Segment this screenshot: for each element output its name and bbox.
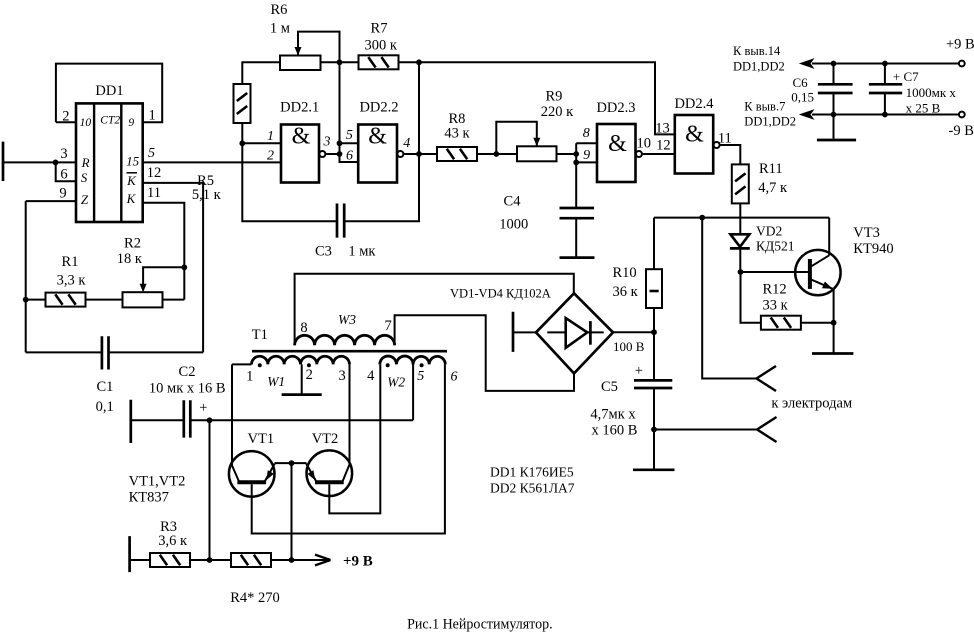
svg-text:DD2.2: DD2.2: [359, 100, 398, 116]
svg-text:4: 4: [403, 136, 410, 151]
svg-text:1: 1: [148, 108, 155, 124]
svg-text:K: K: [126, 173, 137, 188]
svg-text:11: 11: [147, 185, 161, 201]
svg-text:VT2: VT2: [312, 431, 339, 447]
svg-text:+9 В: +9 В: [946, 37, 974, 53]
svg-text:+ C7: + C7: [893, 69, 919, 84]
svg-text:C6: C6: [793, 75, 809, 90]
svg-text:VT1: VT1: [248, 431, 275, 447]
svg-text:DD1: DD1: [95, 83, 123, 99]
svg-text:C2: C2: [179, 364, 196, 380]
svg-text:R: R: [81, 155, 90, 170]
svg-text:9: 9: [59, 186, 66, 202]
svg-text:S: S: [81, 170, 88, 185]
svg-text:&: &: [368, 124, 387, 150]
svg-text:&: &: [685, 122, 704, 148]
svg-text:DD1,DD2: DD1,DD2: [744, 114, 796, 128]
svg-text:W2: W2: [387, 375, 405, 390]
svg-text:Z: Z: [81, 192, 89, 207]
svg-text:DD1,DD2: DD1,DD2: [733, 59, 785, 73]
svg-text:C1: C1: [96, 379, 113, 395]
svg-text:DD2.4: DD2.4: [674, 96, 714, 112]
svg-text:8: 8: [583, 126, 590, 141]
svg-text:х 25 В: х 25 В: [906, 100, 941, 115]
svg-text:K: K: [126, 191, 137, 206]
svg-text:33 к: 33 к: [763, 298, 789, 314]
svg-text:100 В: 100 В: [613, 339, 645, 354]
svg-text:18 к: 18 к: [117, 251, 143, 267]
svg-text:300 к: 300 к: [364, 38, 397, 54]
svg-text:0,15: 0,15: [791, 90, 814, 105]
svg-text:4,7мк х: 4,7мк х: [590, 407, 636, 423]
svg-text:3: 3: [323, 134, 331, 149]
svg-text:43 к: 43 к: [444, 126, 470, 142]
svg-text:5: 5: [346, 128, 353, 143]
svg-text:+: +: [635, 363, 643, 379]
svg-text:КД521: КД521: [756, 239, 794, 254]
svg-text:VT1,VT2: VT1,VT2: [129, 474, 186, 490]
svg-text:5: 5: [417, 369, 424, 384]
svg-text:DD2.1: DD2.1: [280, 100, 319, 116]
svg-text:10: 10: [80, 117, 92, 129]
svg-text:2: 2: [267, 149, 274, 164]
svg-text:R4* 270: R4* 270: [230, 590, 280, 606]
svg-text:R10: R10: [613, 265, 637, 281]
svg-text:W1: W1: [267, 374, 285, 389]
svg-text:6: 6: [60, 167, 67, 183]
svg-text:х 160 В: х 160 В: [592, 422, 638, 438]
svg-text:W3: W3: [338, 312, 356, 327]
svg-text:R6: R6: [270, 2, 287, 18]
svg-text:Т1: Т1: [252, 327, 268, 343]
svg-text:К выв.7: К выв.7: [744, 100, 785, 114]
svg-text:12: 12: [656, 137, 671, 153]
svg-text:6: 6: [451, 370, 458, 385]
svg-text:5,1 к: 5,1 к: [192, 187, 222, 203]
svg-text:DD1 К176ИЕ5: DD1 К176ИЕ5: [490, 465, 574, 480]
svg-text:1 мк: 1 мк: [348, 244, 376, 260]
svg-text:10: 10: [637, 136, 652, 152]
svg-text:3: 3: [338, 368, 345, 384]
svg-text:3,6 к: 3,6 к: [158, 533, 188, 549]
svg-text:Рис.1 Нейростимулятор.: Рис.1 Нейростимулятор.: [407, 616, 552, 632]
svg-text:3,3 к: 3,3 к: [57, 273, 87, 289]
svg-text:DD2.3: DD2.3: [596, 100, 635, 116]
svg-text:+: +: [199, 400, 207, 416]
svg-text:к электродам: к электродам: [771, 395, 852, 411]
svg-text:-9 В: -9 В: [949, 123, 974, 139]
svg-text:8: 8: [300, 320, 307, 336]
svg-text:5: 5: [148, 146, 155, 161]
svg-text:2: 2: [306, 367, 313, 383]
svg-text:1 м: 1 м: [270, 21, 290, 37]
svg-text:C5: C5: [601, 379, 618, 395]
svg-text:КТ837: КТ837: [129, 490, 169, 506]
svg-text:11: 11: [718, 131, 732, 147]
svg-text:R2: R2: [124, 236, 141, 252]
svg-text:12: 12: [147, 165, 162, 181]
svg-text:13: 13: [655, 121, 670, 137]
svg-text:К выв.14: К выв.14: [733, 44, 781, 58]
svg-text:15: 15: [126, 153, 140, 168]
svg-text:36 к: 36 к: [613, 284, 639, 300]
svg-text:1000: 1000: [499, 217, 528, 233]
svg-text:220 к: 220 к: [541, 104, 574, 120]
svg-text:R1: R1: [62, 254, 79, 270]
svg-text:C4: C4: [504, 194, 522, 210]
svg-text:КТ940: КТ940: [853, 241, 893, 257]
svg-text:3: 3: [60, 146, 67, 162]
svg-text:10 мк х 16 В: 10 мк х 16 В: [149, 381, 226, 397]
svg-text:R11: R11: [759, 161, 783, 177]
svg-text:DD2 К561ЛА7: DD2 К561ЛА7: [490, 481, 575, 496]
svg-text:9: 9: [583, 148, 590, 163]
svg-text:&: &: [292, 124, 311, 150]
svg-text:&: &: [608, 131, 627, 157]
svg-text:R7: R7: [371, 20, 388, 36]
svg-text:+9 В: +9 В: [343, 554, 373, 570]
svg-text:2: 2: [62, 109, 69, 125]
svg-text:4,7 к: 4,7 к: [758, 180, 788, 196]
svg-text:VD2: VD2: [756, 224, 782, 239]
svg-text:6: 6: [346, 149, 353, 164]
svg-text:VT3: VT3: [853, 225, 880, 241]
svg-text:1: 1: [267, 129, 274, 144]
svg-text:C3: C3: [315, 244, 332, 260]
svg-text:R12: R12: [763, 282, 787, 298]
svg-text:1000мк х: 1000мк х: [906, 85, 957, 100]
svg-text:4: 4: [367, 368, 375, 384]
svg-text:R9: R9: [545, 89, 562, 105]
svg-text:0,1: 0,1: [96, 399, 114, 415]
svg-text:9: 9: [128, 117, 134, 129]
svg-text:1: 1: [246, 369, 253, 385]
svg-text:VD1-VD4 КД102А: VD1-VD4 КД102А: [450, 286, 551, 301]
svg-text:7: 7: [384, 318, 391, 334]
svg-text:CT2: CT2: [100, 115, 120, 127]
